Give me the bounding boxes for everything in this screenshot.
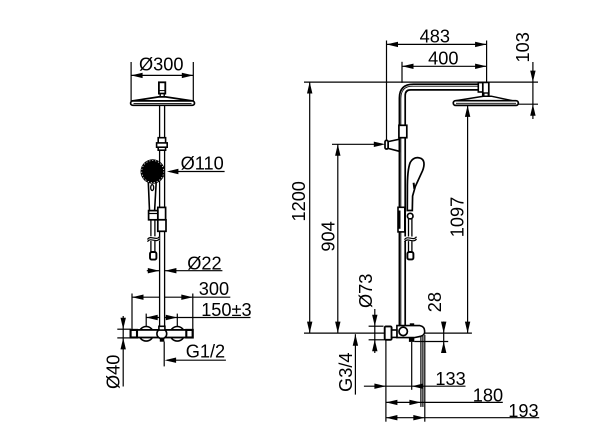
riser collar side (399, 125, 407, 137)
dimension 300 extension line left (131, 294, 133, 330)
top reference line (304, 81, 538, 83)
dimension Ø40 line (122, 316, 124, 387)
hand shower head front (black disc) (141, 159, 165, 183)
faucet body front (131, 330, 193, 338)
head bottom reference line (518, 103, 538, 105)
extension line 180 front (420, 336, 422, 407)
riser sleeve front (158, 220, 166, 232)
dimension Ø73 line (374, 309, 376, 353)
dimension Ø40 arrow up (121, 338, 126, 350)
dimension G1/2 leader line (167, 359, 226, 361)
pipe connector front (157, 138, 168, 151)
wall extension line lower (385, 340, 387, 422)
dimension 483 arrow left (387, 42, 399, 47)
svg-text:G1/2: G1/2 (186, 342, 225, 362)
hand shower side view (407, 158, 424, 211)
svg-text:Ø22: Ø22 (187, 253, 221, 273)
dimension Ø73 tick bottom (369, 339, 385, 341)
hand shower handle hole front (151, 185, 154, 191)
dimension 300 arrow left (132, 295, 144, 300)
spout outlet side (409, 338, 414, 342)
svg-text:133: 133 (435, 369, 465, 389)
faucet neck side (392, 330, 397, 337)
dimension Ø22 line (147, 270, 160, 272)
wall bracket side (385, 139, 399, 151)
head connector side (478, 82, 489, 96)
dimension 133 arrow left-pointing (412, 384, 424, 389)
dimension 300 extension line right (192, 294, 194, 330)
rain shower head front: stem (159, 82, 165, 97)
dimension 193 line (386, 417, 539, 419)
extension line 193 front (424, 335, 426, 422)
dimension G1/2 arrow (165, 358, 177, 363)
svg-text:28: 28 (425, 292, 445, 312)
dimension 180 arrow right (409, 400, 421, 405)
dimension 150±3 extension line right (176, 314, 178, 327)
dimension 103 line (532, 62, 534, 119)
dimension 300 line (132, 296, 230, 298)
shower hose side (409, 219, 412, 252)
hose end cap front (150, 252, 156, 260)
dimension 400 arrow left (402, 64, 414, 69)
extension line spout outlet (411, 342, 413, 390)
dimension 1097 arrow up (465, 105, 470, 117)
extension line body front (422, 336, 424, 407)
hand shower handle front (148, 182, 156, 211)
dimension 133 arrow right-pointing (374, 384, 386, 389)
dimension Ø300 line (131, 74, 193, 76)
dimension Ø300 arrow left (131, 73, 143, 78)
hose break symbol front (147, 236, 160, 241)
dimension 133 line (364, 385, 466, 387)
hand shower holder front (149, 207, 166, 219)
dimension Ø40 tick top (117, 328, 131, 330)
dimension 193 arrow left (386, 415, 398, 420)
dimension 150±3 arrow left (146, 315, 158, 320)
dimension 103 arrow up (530, 104, 535, 116)
dimension 400 line (402, 65, 487, 67)
dimension 28 tick (414, 341, 448, 343)
dimension 1097 arrow down (465, 322, 470, 334)
svg-text:Ø73: Ø73 (356, 274, 376, 308)
dimension Ø300 extension line left (130, 62, 132, 101)
rain shower head side: dome top (455, 96, 514, 101)
riser and arm side view (399, 84, 479, 326)
diverter knob side (410, 323, 414, 326)
svg-text:904: 904 (319, 221, 339, 251)
dimension 904 leader arrow (374, 142, 386, 147)
dimension 180 arrow left (386, 400, 398, 405)
dimension G1/2 vertical line (163, 342, 165, 367)
dimension Ø22 arrow right (165, 268, 177, 273)
dimension Ø300 arrow right (182, 73, 194, 78)
dimension Ø22 arrow left (148, 268, 160, 273)
dimension 150±3 line (146, 317, 250, 319)
dimension 400 arrow right (475, 64, 487, 69)
dimension 1200 line (309, 82, 311, 333)
svg-text:1097: 1097 (448, 197, 468, 237)
svg-text:483: 483 (420, 27, 450, 47)
temperature handle circle side (399, 327, 407, 335)
dimension Ø110 leader line (170, 171, 225, 173)
dimension 1097 line (467, 105, 469, 333)
svg-text:Ø110: Ø110 (181, 154, 224, 174)
dimension 1200 arrow up (307, 82, 312, 94)
dimension Ø73 arrow up (372, 340, 377, 352)
faucet cartridge front (157, 326, 167, 341)
hose end cap side (407, 252, 413, 259)
svg-text:193: 193 (508, 401, 538, 421)
dimension G3/4 line (354, 334, 356, 394)
dimension 904 leader to bracket (332, 143, 378, 145)
dimension Ø73 tick top (369, 325, 384, 327)
dimension 28 arrow up (441, 342, 446, 354)
hand shower holder side (398, 207, 413, 232)
dimension 1200 arrow down (307, 322, 312, 334)
rain shower head front: rim band (131, 101, 195, 105)
dimension Ø73 arrow down (372, 315, 377, 327)
dimension Ø40 tick bottom (117, 337, 131, 339)
dimension 180 line (386, 401, 503, 403)
dimension 300 arrow right (181, 295, 193, 300)
svg-text:103: 103 (513, 32, 533, 62)
faucet body side (397, 326, 425, 338)
svg-text:400: 400 (428, 49, 458, 69)
dimension 400 extension left (riser axis) (401, 62, 403, 83)
svg-text:180: 180 (473, 386, 503, 406)
faucet wall flange side (385, 326, 392, 339)
dimension Ø40 arrow down (121, 318, 126, 330)
dimension 150±3 extension line left (145, 314, 147, 327)
dimension 483 line (387, 43, 487, 45)
dimension G3/4 arrow up (353, 334, 358, 346)
dimension 193 arrow right (413, 415, 425, 420)
dimension 28 line (443, 322, 445, 354)
dimension 483 extension left (wall) (386, 41, 388, 141)
svg-text:G3/4: G3/4 (336, 352, 356, 391)
svg-text:Ø40: Ø40 (104, 355, 124, 389)
hose break symbol side (404, 237, 417, 242)
shower hose front (151, 220, 155, 252)
rain shower head front: dome top (132, 97, 193, 101)
dimension 904 line (337, 144, 339, 333)
dimension 103 arrow down (530, 71, 535, 83)
dimension 150±3 arrow right (166, 315, 178, 320)
dimension 28 arrow down (441, 322, 446, 334)
dimension 483 arrow right (475, 42, 487, 47)
svg-text:300: 300 (199, 279, 229, 299)
faucet centre reference line (304, 332, 472, 334)
dimension 483 extension right (486, 41, 488, 82)
faucet union circle left front (139, 327, 154, 342)
dimension Ø300 extension line right (192, 62, 194, 101)
svg-text:1200: 1200 (289, 181, 309, 221)
rain shower head side: rim band (453, 101, 518, 106)
shower riser pipe front (160, 105, 165, 330)
faucet union circle right front (170, 327, 185, 342)
svg-text:Ø300: Ø300 (139, 54, 184, 74)
dimension Ø110 arrow (167, 169, 179, 174)
dimension 904 arrow down (335, 322, 340, 334)
dimension 904 arrow up (335, 144, 340, 156)
svg-text:150±3: 150±3 (201, 300, 251, 320)
